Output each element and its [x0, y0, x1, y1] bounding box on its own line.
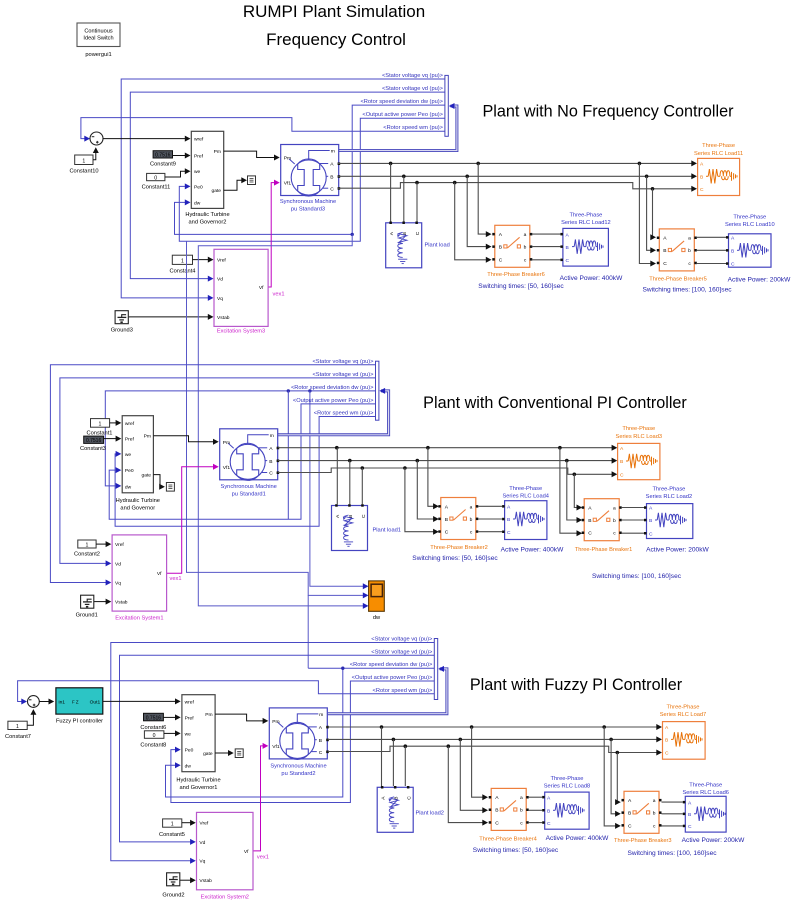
- bus wire m3 (thick): [328, 669, 447, 714]
- svg-text:Three-Phase: Three-Phase: [733, 215, 766, 221]
- scope branch wire (sec1 dw to dw scope in3): [198, 234, 364, 606]
- svg-text:Series RLC Load2: Series RLC Load2: [646, 494, 692, 500]
- svg-text:<Output active power Peo (pu: <Output active power Peo (pu)>: [293, 398, 374, 404]
- junction dot dw3: [341, 667, 344, 670]
- svg-text:Plant with Fuzzy PI Controller: Plant with Fuzzy PI Controller: [470, 676, 683, 694]
- svg-text:<Stator voltage vq (pu)>: <Stator voltage vq (pu)>: [371, 637, 433, 643]
- svg-text:Three-Phase Breaker1: Three-Phase Breaker1: [575, 547, 633, 553]
- wire Constant10 to sum1: [93, 149, 96, 160]
- svg-text:<Output active power Peo (pu: <Output active power Peo (pu)>: [352, 675, 433, 681]
- wire vd1: bus to Vd of Excitation System3: [130, 92, 445, 279]
- svg-text:0: 0: [154, 175, 157, 181]
- wires to Three-Phase Breaker6: [478, 163, 489, 234]
- svg-text:Switching times: [100, 160]sec: Switching times: [100, 160]sec: [627, 850, 717, 857]
- svg-text:Vf: Vf: [244, 849, 249, 855]
- wire governor2 Pm to machine3 Pm: [224, 151, 277, 157]
- three-phase series RLC load8: [542, 792, 589, 829]
- svg-text:gate: gate: [141, 473, 151, 479]
- svg-text:Plant with Conventional PI Con: Plant with Conventional PI Controller: [423, 394, 687, 412]
- svg-text:Vref: Vref: [199, 821, 208, 827]
- svg-text:<Rotor speed wm (pu)>: <Rotor speed wm (pu)>: [383, 125, 443, 131]
- governor block Hydraulic Turbine and Governor: [116, 416, 160, 512]
- svg-text:Ground3: Ground3: [111, 328, 133, 334]
- phase wire B1: [338, 175, 695, 177]
- phase wire B3: [328, 738, 660, 740]
- junction dots A1: [389, 162, 393, 166]
- svg-text:Three-Phase: Three-Phase: [551, 776, 584, 782]
- governor block Hydraulic Turbine and Governor2: [185, 131, 229, 225]
- wire Vf magenta: Excitation System1 to machine1 Vf1: [167, 467, 216, 573]
- wire Vf1 magenta: Excitation System3 Vf to machine3 Vf1: [268, 183, 276, 287]
- svg-text:<Output active power Peo (pu: <Output active power Peo (pu)>: [362, 112, 443, 118]
- wire Constant8 to we (sec3): [164, 732, 178, 734]
- wire Constant11 to we: [165, 171, 188, 177]
- svg-text:Pm: Pm: [214, 149, 221, 155]
- svg-text:Active Power: 200kW: Active Power: 200kW: [728, 277, 791, 284]
- svg-text:Pref: Pref: [194, 154, 204, 160]
- constant Constant6: [140, 713, 166, 731]
- svg-text:pu Standard1: pu Standard1: [232, 491, 266, 497]
- svg-text:Three-Phase Breaker4: Three-Phase Breaker4: [479, 837, 537, 843]
- wire Constant2 to Vref (sec2): [96, 543, 109, 545]
- wire dw2-dot vertical into Pe0 wrap: [287, 391, 289, 519]
- wires breaker2 to RLC Load4: [478, 505, 502, 507]
- three-phase series RLC load4: [502, 501, 547, 540]
- svg-text:Hydraulic Turbine: Hydraulic Turbine: [185, 212, 229, 218]
- plant load1 block: [332, 504, 368, 550]
- wires breaker6 to RLC Load12: [532, 233, 561, 235]
- svg-text:dw: dw: [194, 200, 201, 206]
- svg-text:<Rotor speed wm (pu)>: <Rotor speed wm (pu)>: [314, 411, 374, 417]
- synchronous machine pu Standard3: [281, 145, 341, 197]
- svg-text:gate: gate: [203, 751, 213, 757]
- svg-text:Series RLC Load8: Series RLC Load8: [544, 784, 590, 790]
- three-phase series RLC load2: [644, 504, 693, 539]
- svg-text:Series RLC Load6: Series RLC Load6: [682, 790, 728, 796]
- wire governor Pm to machine1 Pm: [153, 436, 215, 442]
- svg-text:Vq: Vq: [115, 581, 121, 587]
- svg-text:wref: wref: [194, 137, 204, 143]
- svg-text:Excitation System3: Excitation System3: [217, 329, 265, 335]
- svg-text:wref: wref: [125, 421, 135, 427]
- svg-text:Active Power: 200kW: Active Power: 200kW: [646, 547, 709, 554]
- three-phase breaker1: [582, 499, 622, 541]
- svg-text:and Governor2: and Governor2: [189, 220, 227, 226]
- constant Constant3: [80, 436, 106, 452]
- svg-text:C: C: [620, 473, 624, 479]
- ground Ground2: [167, 873, 180, 886]
- synchronous machine pu Standard1: [220, 429, 280, 481]
- svg-text:C: C: [688, 824, 692, 830]
- wires breaker3 to RLC Load6: [662, 801, 683, 803]
- svg-text:Constant10: Constant10: [69, 169, 98, 175]
- constant Constant2: [74, 540, 100, 558]
- phase wire C3: [328, 746, 660, 752]
- wire vd2: bus to Vd of Excitation System1: [60, 378, 376, 564]
- svg-text:C: C: [700, 187, 704, 193]
- wire dw3: bus to governor1 dw (wrap): [166, 668, 435, 797]
- svg-text:Series RLC Load12: Series RLC Load12: [561, 220, 611, 226]
- junction dot dw2 branch to Pe0 wrap: [287, 389, 290, 392]
- wire sum3 to fuzzy controller: [39, 701, 51, 703]
- bus selector bar 3: [434, 639, 437, 700]
- svg-text:Synchronous Machine: Synchronous Machine: [270, 764, 326, 770]
- svg-text:<Stator voltage vq (pu)>: <Stator voltage vq (pu)>: [312, 359, 374, 365]
- wires to Three-Phase Breaker2: [428, 448, 436, 507]
- svg-text:Ground1: Ground1: [76, 613, 98, 619]
- plant load2 block: [377, 786, 413, 832]
- wire dw2: bus to governor dw: [105, 391, 375, 486]
- svg-text:Three-Phase: Three-Phase: [652, 487, 685, 493]
- three-phase series RLC load12: [560, 228, 608, 266]
- svg-text:Fuzzy PI controller: Fuzzy PI controller: [56, 719, 103, 725]
- svg-text:Pm: Pm: [144, 434, 151, 440]
- excitation system 1 block: [112, 535, 167, 622]
- svg-text:RUMPI Plant Simulation: RUMPI Plant Simulation: [243, 2, 425, 21]
- svg-text:1: 1: [16, 724, 19, 730]
- wire Constant6 to Pref (sec3): [163, 716, 177, 718]
- svg-text:C: C: [731, 262, 735, 268]
- svg-text:in1: in1: [59, 700, 66, 706]
- wires breaker5 to RLC Load10: [697, 236, 726, 238]
- svg-text:Active Power: 400kW: Active Power: 400kW: [560, 275, 623, 282]
- svg-text:Vstab: Vstab: [217, 315, 230, 321]
- svg-text:C: C: [507, 530, 511, 536]
- svg-text:0: 0: [153, 733, 156, 739]
- svg-text:Switching times: [100, 160]sec: Switching times: [100, 160]sec: [592, 573, 682, 580]
- svg-text:B: B: [700, 175, 703, 181]
- svg-text:Vq: Vq: [199, 859, 205, 865]
- svg-text:Switching times: [50, 160]sec: Switching times: [50, 160]sec: [412, 555, 498, 562]
- phase wire B2: [278, 460, 615, 462]
- wire vq1: bus to Vq of Excitation System3: [121, 79, 445, 298]
- svg-text:vex1: vex1: [257, 855, 269, 861]
- constant Constant1: [87, 419, 113, 437]
- junction dot dw1-scope branch: [351, 233, 354, 236]
- svg-text:B: B: [665, 738, 668, 744]
- svg-text:<Stator voltage vd (pu)>: <Stator voltage vd (pu)>: [382, 86, 444, 92]
- junction dot dw2 branch to scope: [308, 389, 311, 392]
- svg-text:Constant6: Constant6: [140, 725, 166, 731]
- wire Constant4 to Vref: [193, 259, 211, 261]
- svg-text:0.7516: 0.7516: [86, 438, 102, 444]
- three-phase breaker6: [492, 225, 532, 267]
- wire governor gate to terminator (sec2): [153, 475, 162, 487]
- svg-text:Synchronous Machine: Synchronous Machine: [221, 484, 277, 490]
- wire wm1: bus to sum1: [81, 118, 445, 139]
- svg-text:Vstab: Vstab: [115, 600, 128, 606]
- wire Constant5 to Vref (sec3): [182, 822, 193, 824]
- svg-text:0.7516: 0.7516: [146, 715, 162, 721]
- svg-text:Three-Phase Breaker3: Three-Phase Breaker3: [614, 838, 672, 844]
- svg-text:Hydraulic Turbine: Hydraulic Turbine: [176, 778, 220, 784]
- svg-text:1: 1: [181, 258, 184, 264]
- bus wire m1 (thick): [338, 106, 457, 151]
- svg-text:Series RLC Load3: Series RLC Load3: [616, 434, 662, 440]
- svg-text:<Stator voltage vq (pu)>: <Stator voltage vq (pu)>: [382, 73, 444, 79]
- svg-text:Series RLC Load10: Series RLC Load10: [725, 222, 775, 228]
- junction dots B3: [392, 738, 396, 742]
- wire dw3 left end rises to scope in2: [308, 667, 343, 669]
- wire vd3: bus to Vd of Excitation System2: [120, 655, 435, 842]
- svg-text:F Z: F Z: [72, 700, 79, 705]
- svg-text:1: 1: [171, 822, 174, 828]
- svg-text:1: 1: [99, 421, 102, 427]
- svg-text:B: B: [731, 249, 734, 255]
- sum block Sum1: [90, 132, 103, 145]
- excitation system 2 block: [197, 812, 254, 900]
- svg-text:Excitation System1: Excitation System1: [115, 616, 163, 622]
- junction dots C1: [415, 181, 419, 185]
- wires to Three-Phase Breaker4: [472, 727, 486, 797]
- svg-text:<Rotor speed wm (pu)>: <Rotor speed wm (pu)>: [373, 688, 433, 694]
- svg-text:Three-Phase: Three-Phase: [569, 213, 602, 219]
- three-phase breaker2: [438, 498, 478, 540]
- three-phase series RLC load10: [726, 234, 771, 268]
- governor block Hydraulic Turbine and Governor1: [176, 695, 220, 791]
- svg-text:<Rotor speed deviation dw (pu: <Rotor speed deviation dw (pu)>: [350, 662, 433, 668]
- svg-text:<Stator voltage vd (pu)>: <Stator voltage vd (pu)>: [312, 372, 374, 378]
- svg-text:C: C: [649, 531, 653, 537]
- wire Constant1 to wref: [110, 422, 119, 424]
- svg-text:<Rotor speed deviation dw (pu: <Rotor speed deviation dw (pu)>: [360, 99, 443, 105]
- junction dots A3: [380, 725, 384, 729]
- svg-text:vex1: vex1: [170, 576, 182, 582]
- terminator gate2: [166, 483, 174, 492]
- svg-text:Vref: Vref: [115, 542, 124, 548]
- svg-text:B: B: [507, 517, 510, 523]
- constant Constant11: [142, 173, 171, 190]
- wire Constant3 to Pref: [104, 438, 119, 440]
- three-phase series RLC load6: [683, 796, 726, 832]
- drop wires to Plant load: [390, 163, 392, 221]
- wire governor1 gate to terminator: [215, 752, 231, 754]
- svg-text:and Governor1: and Governor1: [180, 785, 218, 791]
- junction dots B1: [402, 175, 406, 179]
- wire vq3: bus to Vq of Excitation System2: [111, 643, 435, 861]
- svg-text:B: B: [649, 518, 652, 524]
- svg-text:and Governor: and Governor: [120, 506, 155, 512]
- svg-text:Active Power: 400kW: Active Power: 400kW: [501, 547, 564, 554]
- svg-text:B: B: [620, 459, 623, 465]
- svg-text:Vd: Vd: [217, 277, 223, 283]
- svg-text:pu Standard2: pu Standard2: [281, 771, 315, 777]
- svg-text:Three-Phase Breaker2: Three-Phase Breaker2: [430, 545, 488, 551]
- svg-text:Excitation System2: Excitation System2: [201, 895, 249, 901]
- svg-text:Pm: Pm: [205, 712, 212, 718]
- svg-text:Switching times: [50, 160]sec: Switching times: [50, 160]sec: [473, 847, 559, 854]
- wire Peo2: bus to governor Pe0 (wrap): [109, 404, 375, 519]
- svg-text:Plant with No Frequency Contro: Plant with No Frequency Controller: [482, 103, 734, 121]
- junction dots C3: [404, 744, 408, 748]
- svg-text:Pref: Pref: [185, 715, 195, 721]
- wire vq2: bus to Vq of Excitation System1: [50, 365, 375, 583]
- svg-text:Constant7: Constant7: [5, 734, 31, 740]
- phase wire C1: [338, 183, 695, 189]
- constant Constant7: [5, 721, 31, 740]
- svg-text:Three-Phase: Three-Phase: [689, 783, 722, 789]
- svg-text:0.7516: 0.7516: [155, 153, 171, 159]
- svg-text:vex1: vex1: [273, 292, 285, 298]
- svg-text:Three-Phase Breaker5: Three-Phase Breaker5: [649, 276, 707, 282]
- three-phase breaker4: [489, 788, 529, 830]
- phase wire A3: [328, 726, 660, 728]
- ground Ground1: [81, 595, 94, 608]
- junction dots B2: [348, 459, 352, 463]
- synchronous machine pu Standard2: [269, 708, 329, 760]
- svg-text:Vf: Vf: [259, 285, 264, 291]
- svg-text:Constant1: Constant1: [87, 430, 113, 436]
- svg-text:Three-Phase: Three-Phase: [667, 704, 700, 710]
- svg-text:wref: wref: [185, 699, 195, 705]
- wire wm2: bus to governor we (wrap): [115, 417, 375, 527]
- svg-text:Constant4: Constant4: [170, 269, 196, 275]
- svg-text:Three-Phase: Three-Phase: [702, 143, 735, 149]
- wire Peo1: bus to governor2 Pe0 (wrap under blocks): [179, 118, 445, 241]
- svg-text:<Rotor speed deviation dw (pu: <Rotor speed deviation dw (pu)>: [291, 385, 374, 391]
- plant load block (sec1): [386, 222, 422, 268]
- wire Vf magenta: Excitation System2 to machine2 Vf1: [253, 746, 265, 851]
- svg-text:Vq: Vq: [217, 296, 223, 302]
- svg-text:Constant8: Constant8: [140, 742, 166, 748]
- svg-text:Ground2: Ground2: [162, 892, 184, 898]
- wires to Three-Phase Breaker3: [604, 727, 618, 826]
- svg-text:Plant load2: Plant load2: [416, 811, 444, 817]
- svg-text:Series RLC Load11: Series RLC Load11: [694, 151, 743, 157]
- svg-text:Series RLC Load7: Series RLC Load7: [660, 712, 706, 718]
- svg-text:Continuous: Continuous: [84, 29, 113, 35]
- long wire from Peo wrap to scope area: [187, 241, 365, 595]
- fuzzy PI controller block: [56, 688, 103, 725]
- wires breaker1 to RLC Load2: [622, 507, 644, 509]
- svg-text:<Stator voltage vd (pu)>: <Stator voltage vd (pu)>: [371, 649, 433, 655]
- svg-text:dw: dw: [373, 615, 381, 621]
- ground Ground3: [115, 311, 128, 324]
- svg-text:we: we: [194, 170, 201, 175]
- svg-text:Hydraulic Turbine: Hydraulic Turbine: [116, 498, 160, 504]
- svg-text:Vd: Vd: [115, 561, 121, 567]
- wire Ground3 to Vstab: [129, 316, 211, 318]
- wire dw2 branch to dw scope in1: [310, 391, 364, 586]
- svg-text:Constant11: Constant11: [142, 185, 171, 191]
- svg-text:we: we: [125, 453, 132, 458]
- wire dw1: bus to governor2 dw (wrap under blocks): [175, 105, 445, 234]
- svg-text:Active Power: 400kW: Active Power: 400kW: [546, 835, 609, 842]
- svg-text:dw: dw: [185, 763, 192, 769]
- wire governor1 Pm to machine2 Pm: [215, 714, 265, 721]
- scope block dw: [369, 581, 385, 621]
- svg-text:Active Power: 200kW: Active Power: 200kW: [682, 837, 745, 844]
- svg-text:Plant load: Plant load: [425, 243, 450, 249]
- svg-text:B: B: [547, 809, 550, 815]
- svg-text:Pe0: Pe0: [194, 184, 203, 190]
- svg-text:Three-Phase: Three-Phase: [622, 426, 655, 432]
- svg-text:C: C: [665, 751, 669, 757]
- constant Constant5: [159, 819, 185, 838]
- svg-text:Switching times: [100, 160]sec: Switching times: [100, 160]sec: [642, 286, 732, 293]
- wire Constant9 to Pref: [173, 155, 188, 157]
- wires to Three-Phase Breaker5: [639, 163, 653, 263]
- wire wm3: bus to sum3: [18, 681, 435, 702]
- svg-text:Vstab: Vstab: [199, 878, 212, 884]
- sum block Sum3: [28, 696, 40, 708]
- three-phase series RLC load11: [698, 158, 740, 195]
- wires breaker4 to RLC Load8: [529, 796, 543, 798]
- bus selector bar 2: [376, 361, 379, 420]
- terminator gate1: [248, 176, 256, 185]
- wire Peo3: bus to governor1 Pe0 (wrap): [171, 681, 434, 803]
- svg-text:Pref: Pref: [125, 437, 135, 443]
- wire Constant7 to sum3: [27, 710, 33, 725]
- svg-text:Vf: Vf: [157, 571, 162, 577]
- junction dots C2: [361, 466, 365, 470]
- bus wire m2 (thick): [278, 391, 389, 435]
- svg-text:Plant load1: Plant load1: [373, 528, 401, 534]
- svg-text:Frequency Control: Frequency Control: [266, 30, 406, 49]
- svg-text:Synchronous Machine: Synchronous Machine: [280, 199, 336, 205]
- svg-text:Three-Phase: Three-Phase: [509, 486, 542, 492]
- svg-text:Pe0: Pe0: [125, 468, 134, 474]
- wire Ground1 to Vstab: [94, 601, 109, 603]
- svg-text:Constant3: Constant3: [80, 446, 106, 452]
- svg-text:Constant5: Constant5: [159, 832, 185, 838]
- wires to Three-Phase Breaker1: [560, 448, 580, 534]
- three-phase series RLC load7: [663, 722, 706, 760]
- phase wire C2: [278, 468, 615, 474]
- wire sum1 to governor2 wref: [103, 138, 188, 140]
- drop wires to Plant load1: [336, 448, 338, 505]
- svg-text:Constant9: Constant9: [150, 162, 176, 168]
- three-phase series RLC load3: [618, 443, 660, 479]
- drop wires to Plant load2: [381, 727, 383, 786]
- constant Constant9: [150, 151, 176, 168]
- junction dots A2: [335, 446, 339, 450]
- svg-text:Pe0: Pe0: [185, 748, 194, 754]
- terminator gate3: [235, 749, 243, 758]
- constant Constant4: [170, 255, 196, 274]
- svg-text:Series RLC Load4: Series RLC Load4: [502, 494, 548, 500]
- svg-text:Out1: Out1: [90, 700, 101, 706]
- svg-text:Vref: Vref: [217, 258, 226, 264]
- svg-text:dw: dw: [125, 485, 132, 491]
- svg-text:powergui1: powergui1: [85, 52, 111, 58]
- three-phase breaker3: [622, 791, 662, 833]
- phase wire A1: [338, 162, 695, 164]
- powergui block powergui1: [77, 23, 120, 58]
- svg-text:pu Standard3: pu Standard3: [291, 206, 325, 212]
- svg-text:Ideal Switch: Ideal Switch: [83, 36, 113, 42]
- svg-text:C: C: [566, 258, 570, 264]
- three-phase breaker5: [657, 229, 697, 271]
- svg-text:Vd: Vd: [199, 840, 205, 846]
- constant Constant8: [140, 731, 166, 749]
- bus selector bar 1: [445, 75, 448, 136]
- svg-text:C: C: [547, 821, 551, 827]
- phase wire A2: [278, 447, 615, 449]
- wire continuation down to sec3 dw line: [307, 595, 309, 668]
- excitation system 3 block: [214, 249, 268, 334]
- wire fuzzy to governor1 wref: [103, 700, 178, 702]
- svg-text:B: B: [688, 812, 691, 818]
- svg-text:Switching times: [50, 160]sec: Switching times: [50, 160]sec: [478, 283, 564, 290]
- svg-text:gate: gate: [211, 188, 221, 194]
- svg-text:1: 1: [82, 158, 85, 164]
- svg-text:Three-Phase Breaker6: Three-Phase Breaker6: [487, 272, 545, 278]
- svg-text:we: we: [185, 732, 192, 737]
- wire governor2 gate to terminator: [224, 180, 244, 190]
- wire Ground2 to Vstab (sec3): [180, 879, 193, 881]
- svg-text:B: B: [566, 245, 569, 251]
